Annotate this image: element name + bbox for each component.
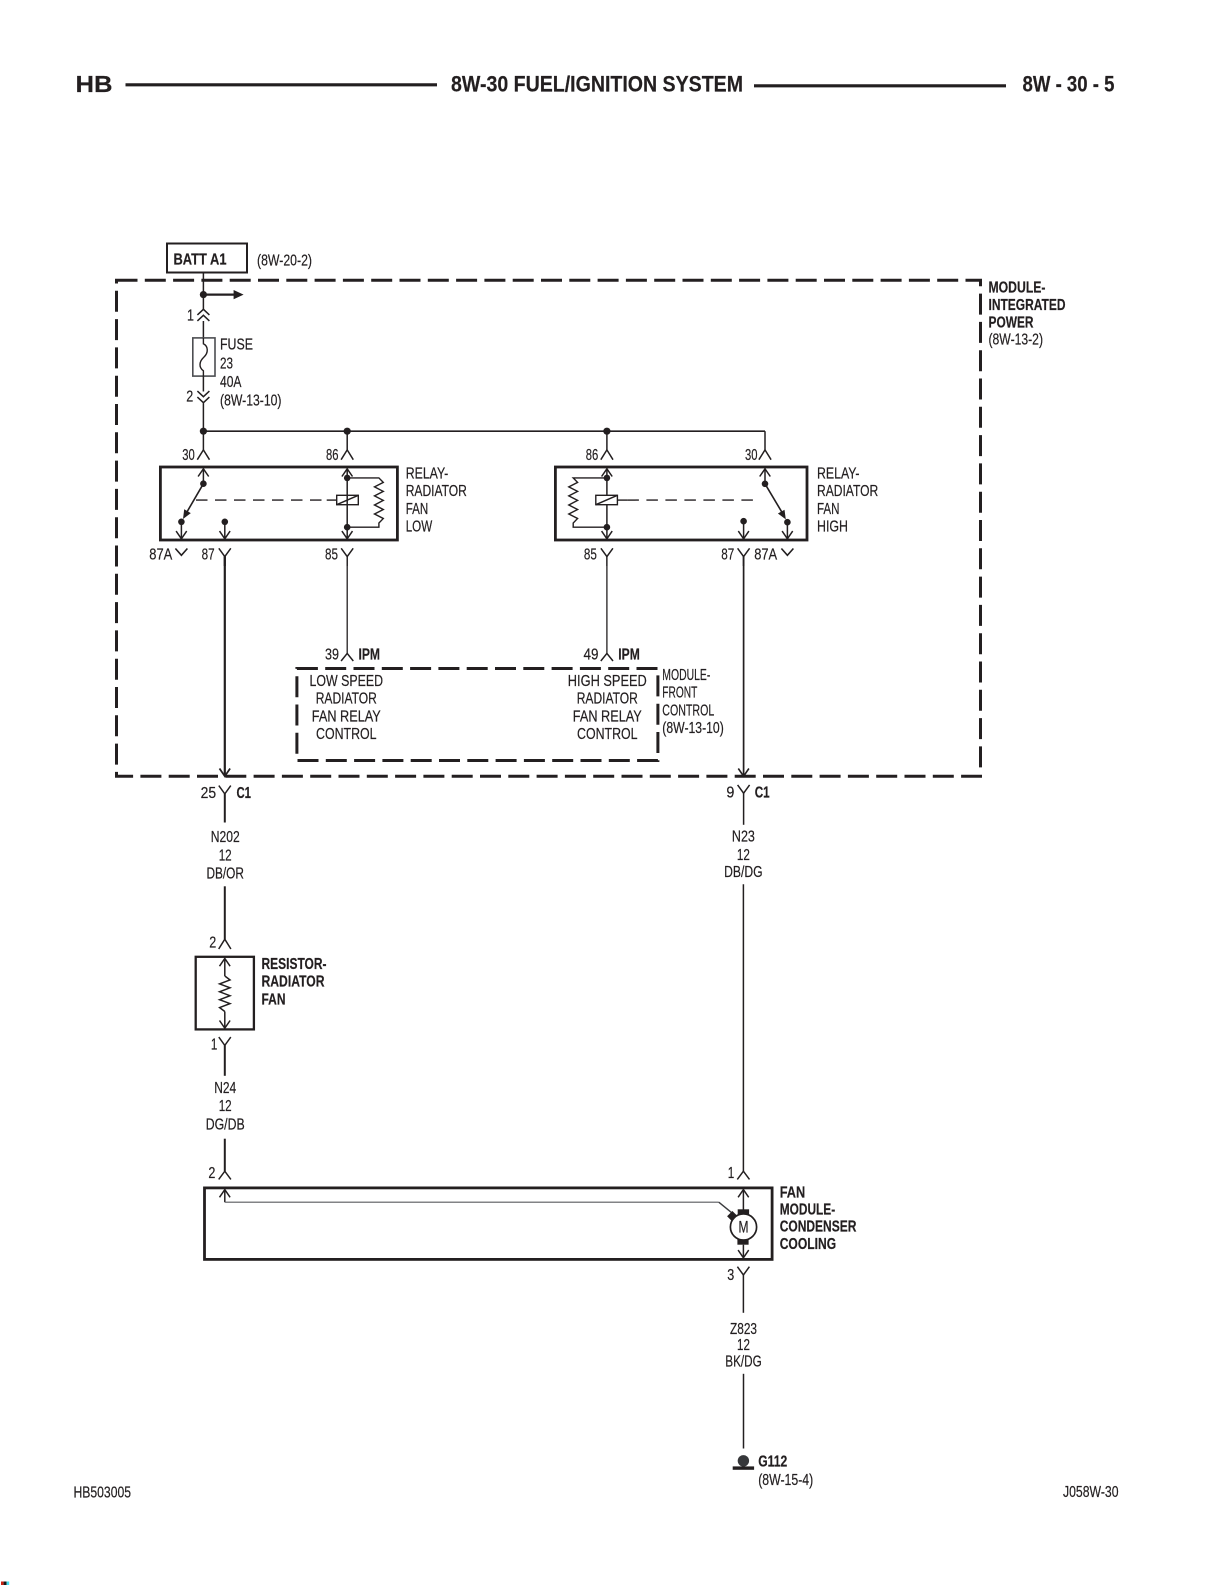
svg-text:RESISTOR-: RESISTOR- (262, 956, 327, 973)
svg-text:87A: 87A (149, 546, 173, 563)
label FAN MODULE-CONDENSER COOLING (780, 1184, 857, 1253)
motor brush bottom (737, 1239, 748, 1244)
relay K-high 87 exit wire (738, 521, 749, 539)
svg-text:2: 2 (208, 1165, 215, 1182)
svg-text:CONTROL: CONTROL (662, 702, 714, 719)
wire fuse to bus (202, 403, 204, 431)
svg-text:49: 49 (584, 647, 599, 664)
svg-text:FAN: FAN (406, 501, 429, 518)
svg-text:RADIATOR: RADIATOR (406, 483, 467, 500)
svg-text:2: 2 (186, 389, 193, 406)
svg-text:LOW SPEED: LOW SPEED (310, 673, 384, 690)
svg-text:FRONT: FRONT (662, 685, 697, 702)
relay K-low 87 contact node (222, 519, 229, 526)
relay K-low 87A contact node (178, 519, 185, 526)
pin 1 connector chevrons (197, 309, 209, 321)
junction splice node (200, 291, 207, 298)
pin terminal relay-low pin 86 (326, 447, 353, 464)
wire bus drop to relay-low pin86 (346, 431, 348, 450)
motor brush diagonal (727, 1211, 738, 1222)
svg-text:2: 2 (209, 934, 216, 951)
wire relay-high 85 to IPM pin 49 (606, 556, 608, 653)
svg-text:POWER: POWER (989, 314, 1034, 331)
svg-text:8W - 30 - 5: 8W - 30 - 5 (1023, 71, 1115, 96)
svg-text:G112: G112 (758, 1453, 787, 1470)
svg-text:85: 85 (584, 546, 597, 563)
wire N23 to fan module pin 1 (742, 884, 744, 1171)
relay K-high Relay-Radiator Fan High box (555, 467, 807, 540)
relay K-high 87 contact node (740, 518, 747, 525)
header rule right (754, 84, 1006, 87)
pin terminal relay-high pin 86 (586, 447, 613, 464)
svg-text:COOLING: COOLING (780, 1236, 837, 1253)
relay K-high switch arm (765, 484, 786, 520)
resistor R-Radiator-Fan box (196, 957, 254, 1030)
svg-text:MODULE-: MODULE- (989, 280, 1046, 297)
svg-text:HB: HB (76, 71, 113, 97)
svg-text:CONDENSER: CONDENSER (780, 1219, 857, 1236)
label MODULE-INTEGRATED POWER (8W-13-2) (989, 280, 1066, 349)
fan module box (205, 1188, 773, 1260)
wire N24 to fan module pin 2 (224, 1139, 226, 1172)
svg-text:87: 87 (202, 546, 215, 563)
wire N202 to resistor pin 2 (224, 886, 226, 939)
svg-text:FUSE: FUSE (220, 336, 253, 353)
svg-text:(8W-15-4): (8W-15-4) (758, 1472, 813, 1489)
pin fan module 3 (727, 1267, 749, 1313)
svg-text:MODULE-: MODULE- (780, 1202, 836, 1219)
label RELAY-RADIATOR FAN HIGH (817, 465, 878, 535)
resistor R-Radiator-Fan entry arrow (220, 959, 231, 977)
wire fan module internal low-speed feed (225, 1202, 734, 1214)
connector C1 pin 25 (201, 785, 252, 823)
label wire N23 12 DB/DG (724, 829, 763, 881)
pin terminal relay-high 87 (721, 546, 749, 566)
svg-text:N24: N24 (214, 1080, 236, 1097)
svg-text:30: 30 (745, 447, 758, 464)
fan module pin1 entry arrow (738, 1190, 749, 1210)
label FUSE 23 40A (220, 336, 253, 391)
relay K-high coil bottom node (604, 524, 611, 531)
module Module-Integrated Power dashed box (117, 280, 981, 776)
relay K-low actuation dashed link (196, 499, 337, 501)
svg-text:DB/DG: DB/DG (724, 864, 763, 881)
motor exit wire (738, 1245, 749, 1258)
relay K-high 85 exit wire (602, 527, 613, 539)
svg-text:3: 3 (727, 1267, 734, 1284)
relay K-high coil (596, 495, 618, 504)
wire bus horizontal (203, 430, 765, 432)
svg-text:BATT A1: BATT A1 (174, 252, 227, 269)
svg-text:87: 87 (721, 546, 734, 563)
svg-text:8W-30 FUEL/IGNITION SYSTEM: 8W-30 FUEL/IGNITION SYSTEM (451, 71, 743, 96)
svg-text:25: 25 (201, 785, 217, 802)
scan artifact corner (1, 1582, 9, 1585)
svg-text:RELAY-: RELAY- (406, 465, 449, 482)
wire BATT A1 to splice (202, 273, 204, 295)
relay K-low pin30 entry arrow (198, 469, 209, 484)
svg-text:CONTROL: CONTROL (577, 726, 638, 743)
page header HB (76, 71, 113, 97)
svg-text:86: 86 (326, 447, 339, 464)
svg-text:CONTROL: CONTROL (316, 726, 377, 743)
relay K-low 87 exit wire (220, 522, 231, 539)
pin terminal relay-low pin 30 (182, 447, 209, 464)
motor brush top (738, 1209, 749, 1214)
label G112 (8W-15-4) (758, 1453, 813, 1489)
relay K-high coil top node (604, 475, 611, 482)
relay K-low 87A exit wire (176, 522, 187, 539)
svg-text:FAN: FAN (817, 501, 840, 518)
pin 1 label of fuse (187, 308, 194, 325)
pin resistor 2 (209, 934, 231, 951)
svg-text:12: 12 (219, 848, 232, 865)
svg-text:40A: 40A (220, 374, 242, 391)
relay K-low switch arm (183, 484, 203, 519)
wire relay-low 85 to IPM pin 39 (346, 556, 348, 653)
svg-text:DB/OR: DB/OR (206, 866, 244, 883)
svg-text:87A: 87A (754, 546, 778, 563)
wire N23 exit arrow (738, 769, 749, 777)
pin 2 label of fuse (186, 389, 193, 406)
svg-text:LOW: LOW (406, 518, 433, 535)
svg-text:FAN: FAN (262, 992, 286, 1009)
svg-text:12: 12 (737, 847, 750, 864)
relay K-high switch common node (762, 481, 769, 488)
pin 2 connector chevrons (197, 391, 209, 403)
svg-text:1: 1 (187, 308, 194, 325)
resistor R-Radiator-Fan element (220, 976, 230, 1012)
svg-text:85: 85 (325, 546, 338, 563)
label RESISTOR-RADIATOR FAN (262, 956, 327, 1009)
svg-text:N23: N23 (732, 829, 755, 846)
svg-text:RADIATOR: RADIATOR (316, 691, 377, 708)
svg-text:(8W-13-10): (8W-13-10) (662, 720, 724, 737)
svg-text:(8W-13-2): (8W-13-2) (989, 332, 1044, 349)
connector BATT A1 box (167, 244, 247, 273)
wire Z823 to ground (743, 1374, 745, 1449)
resistor R-Radiator-Fan exit wire (220, 1012, 231, 1029)
relay K-low 85 exit wire (342, 527, 353, 539)
svg-text:HIGH: HIGH (817, 518, 848, 535)
relay K-low coil (337, 495, 359, 504)
svg-text:FAN RELAY: FAN RELAY (573, 708, 642, 725)
svg-text:12: 12 (219, 1098, 232, 1115)
relay K-high 87A exit wire (782, 522, 793, 539)
svg-text:Z823: Z823 (730, 1321, 757, 1338)
junction bus node left (200, 428, 207, 435)
label wire N202 12 DB/OR (206, 829, 244, 883)
pin terminal relay-high 87A (754, 546, 793, 563)
label RELAY-RADIATOR FAN LOW (406, 465, 467, 535)
svg-text:FAN RELAY: FAN RELAY (312, 708, 381, 725)
relay K-low coil bottom node (344, 524, 351, 531)
label HIGH SPEED RADIATOR FAN RELAY CONTROL (568, 673, 647, 743)
svg-text:23: 23 (220, 356, 233, 373)
relay K-high pin86 entry arrow (602, 469, 613, 478)
svg-text:RADIATOR: RADIATOR (817, 483, 878, 500)
svg-text:INTEGRATED: INTEGRATED (989, 297, 1066, 314)
svg-text:1: 1 (728, 1165, 735, 1182)
junction bus node 86-low (344, 428, 351, 435)
footer HB503005 (74, 1485, 132, 1502)
wire bus drop to relay-high pin86 (606, 431, 608, 450)
fan module pin2 entry arrow (220, 1190, 231, 1203)
svg-text:39: 39 (325, 647, 339, 664)
svg-text:RADIATOR: RADIATOR (577, 691, 638, 708)
label (8W-20-2) (257, 252, 312, 269)
relay K-low coil vertical wire (346, 478, 348, 527)
svg-text:J058W-30: J058W-30 (1063, 1484, 1119, 1501)
svg-text:(8W-20-2): (8W-20-2) (257, 252, 312, 269)
junction bus node 86-high (603, 428, 610, 435)
svg-text:(8W-13-10): (8W-13-10) (220, 393, 282, 410)
wire splice to pin1 (202, 295, 204, 311)
header rule left (126, 83, 438, 86)
relay K-high internal resistor (569, 478, 607, 527)
wire fuse to pin2 (202, 376, 204, 391)
pin terminal relay-low 87 (202, 546, 231, 566)
svg-text:RADIATOR: RADIATOR (262, 974, 325, 991)
wire N202 exit arrow (220, 769, 231, 777)
ground G112 symbol (733, 1455, 754, 1470)
pin fan module 1 (728, 1165, 750, 1182)
svg-text:N202: N202 (211, 829, 240, 846)
label wire N24 12 DG/DB (206, 1080, 245, 1133)
svg-text:30: 30 (182, 447, 195, 464)
svg-text:MODULE-: MODULE- (662, 667, 710, 684)
pin terminal relay-high 85 (584, 546, 613, 566)
pin fan module 2 (208, 1165, 231, 1182)
svg-text:C1: C1 (755, 784, 770, 801)
wire splice continuation arrow (203, 290, 243, 299)
label (8W-13-10) (220, 393, 282, 410)
label wire Z823 12 BK/DG (725, 1321, 762, 1371)
svg-text:BK/DG: BK/DG (725, 1354, 762, 1371)
svg-text:RELAY-: RELAY- (817, 465, 860, 482)
svg-text:IPM: IPM (359, 647, 381, 664)
module Module-Front Control dashed box (297, 669, 658, 761)
pin terminal relay-low 87A (149, 546, 187, 563)
wire pin1 to fuse (202, 321, 204, 338)
fuse F23 body (193, 338, 215, 376)
page header title 8W-30 FUEL/IGNITION SYSTEM (451, 71, 743, 96)
svg-text:9: 9 (726, 784, 734, 801)
svg-text:12: 12 (737, 1337, 750, 1354)
wire bus drop to relay-high pin30 (764, 431, 766, 450)
relay K-low pin86 entry arrow (342, 469, 353, 478)
relay K-high 87A contact node (784, 519, 791, 526)
relay K-low internal resistor (347, 478, 383, 527)
label MODULE-FRONT CONTROL (8W-13-10) (662, 667, 724, 737)
svg-text:1: 1 (211, 1037, 218, 1054)
wire bus drop to relay-low pin30 (202, 431, 204, 450)
connector C1 pin 9 (726, 784, 770, 825)
svg-text:DG/DB: DG/DB (206, 1116, 245, 1133)
relay K-low Relay-Radiator Fan Low box (160, 467, 397, 540)
pin IPM 39 (325, 647, 380, 664)
svg-text:FAN: FAN (780, 1184, 806, 1201)
svg-text:HB503005: HB503005 (74, 1485, 132, 1502)
svg-text:HIGH SPEED: HIGH SPEED (568, 673, 647, 690)
svg-text:M: M (739, 1219, 749, 1237)
pin terminal relay-high pin 30 (745, 447, 771, 464)
wire N202 inside MIP (relay-low 87 down) (224, 556, 226, 775)
wire N23 inside MIP (relay-high 87 down) (743, 556, 745, 775)
relay K-high coil vertical wire (606, 478, 608, 527)
svg-text:C1: C1 (237, 785, 252, 802)
pin resistor 1 (211, 1037, 231, 1076)
relay K-high actuation dashed link (617, 499, 755, 501)
page header 8W - 30 - 5 (1023, 71, 1115, 96)
pin IPM 49 (584, 647, 640, 664)
motor M1 condenser cooling fan (730, 1214, 756, 1240)
pin terminal relay-low 85 (325, 546, 353, 566)
svg-text:IPM: IPM (618, 647, 640, 664)
relay K-low switch common node (200, 480, 207, 487)
relay K-high pin30 entry arrow (760, 469, 771, 484)
svg-text:86: 86 (586, 447, 599, 464)
footer J058W-30 (1063, 1484, 1119, 1501)
label LOW SPEED RADIATOR FAN RELAY CONTROL (310, 673, 384, 743)
relay K-low coil top node (344, 475, 351, 482)
